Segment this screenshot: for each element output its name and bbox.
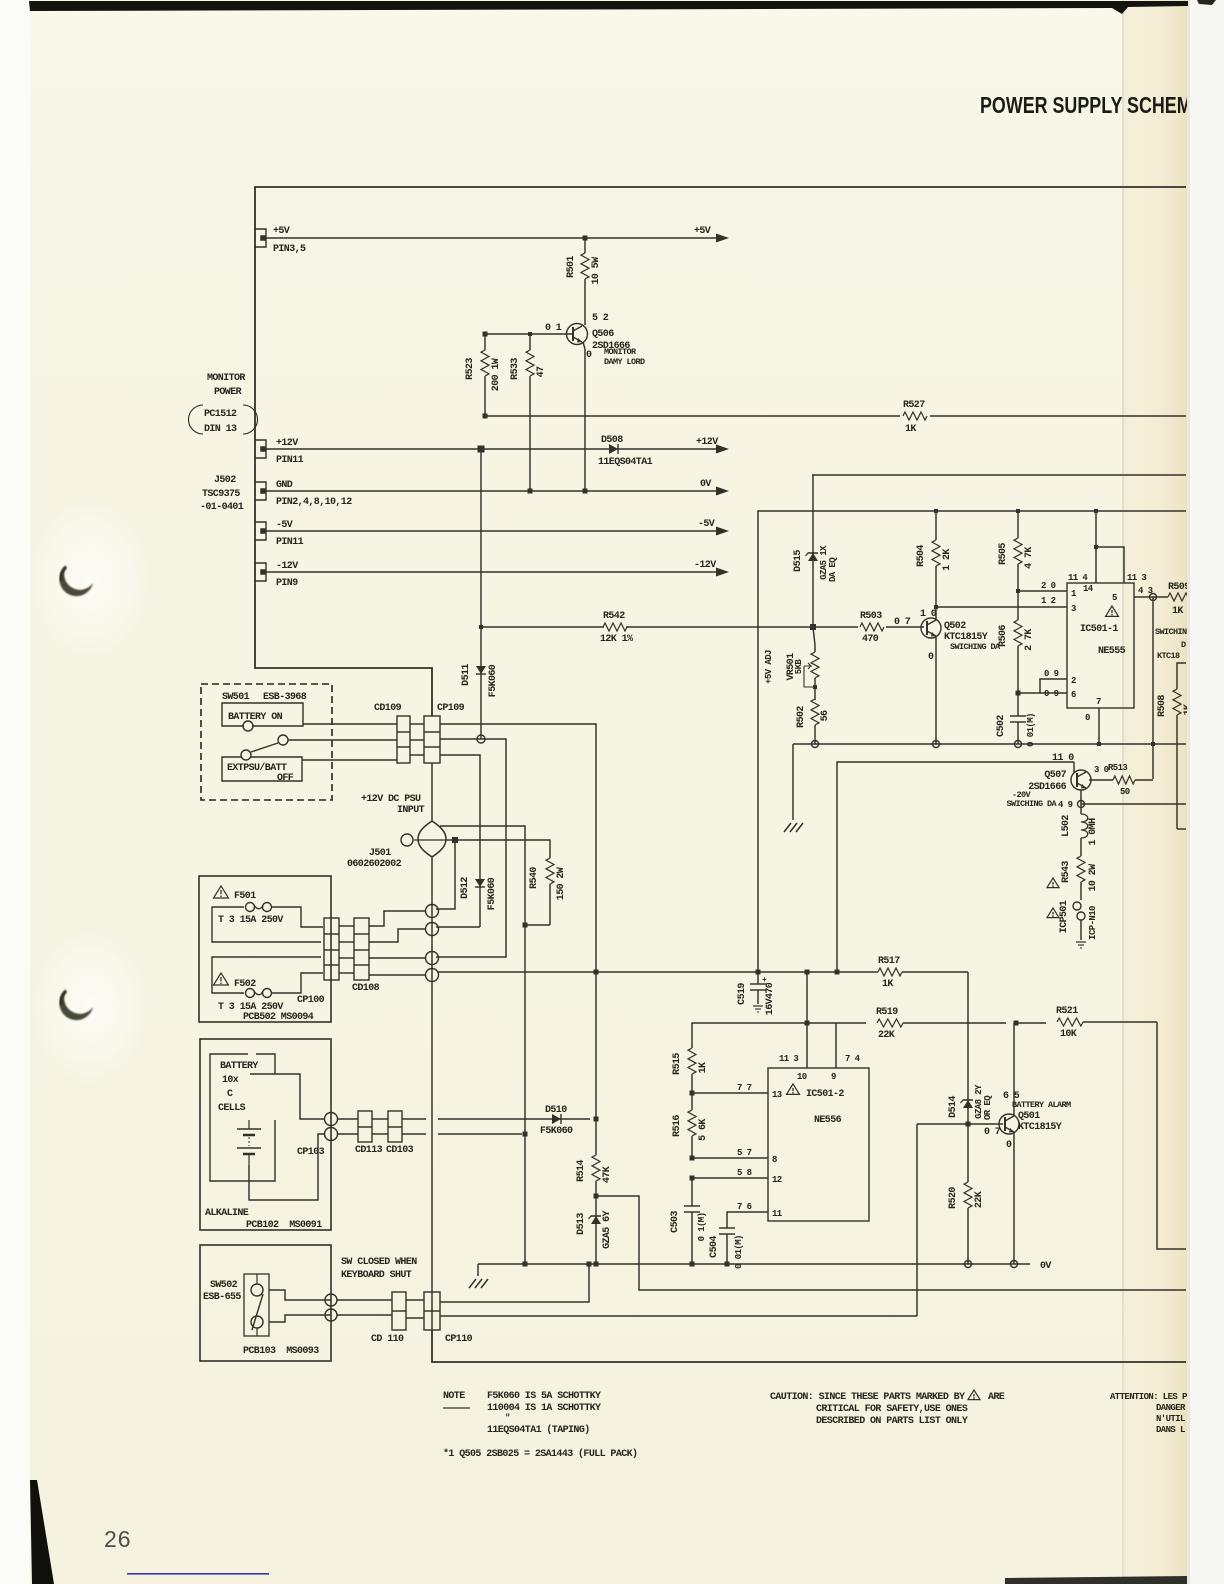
wire keyboard net down [524, 1134, 526, 1264]
connector pin circle 4 [426, 969, 439, 982]
resistor R523 200 1W [484, 334, 486, 350]
wire CD108 pin2 to J501 [369, 929, 426, 942]
capacitor C502 0.01(M) [1017, 693, 1019, 716]
svg-text:CAUTION: SINCE THESE PARTS MAR: CAUTION: SINCE THESE PARTS MARKED BY [770, 1392, 965, 1403]
svg-text:D514: D514 [948, 1096, 959, 1118]
resistor R508 1K [1173, 689, 1181, 715]
svg-text:R521: R521 [1056, 1006, 1078, 1017]
diode D514 GZA8 2Y OR EQ (zener) [967, 1094, 969, 1124]
svg-text:DA EQ: DA EQ [828, 557, 838, 582]
svg-text:INPUT: INPUT [397, 805, 425, 816]
wire J501 to R540 [447, 840, 550, 858]
svg-text:+5V: +5V [694, 226, 711, 237]
capacitor C503 0.1(M) [691, 1178, 693, 1206]
svg-text:7: 7 [1096, 697, 1101, 707]
wire Q507 emitter node [1080, 790, 1082, 804]
svg-text:CD108: CD108 [352, 983, 380, 994]
wire CD109-CP109 links [410, 723, 424, 725]
svg-text:R508: R508 [1157, 695, 1168, 717]
svg-text:0 1(M): 0 1(M) [697, 1213, 707, 1242]
svg-text:BATTERY: BATTERY [220, 1061, 258, 1072]
svg-text:R517: R517 [878, 956, 900, 967]
svg-text:CD109: CD109 [374, 703, 402, 714]
connector pin circle 1 [426, 905, 439, 918]
svg-text:PCB102 MS0091: PCB102 MS0091 [246, 1220, 322, 1231]
connector CP110 [424, 1292, 440, 1330]
svg-text:F502: F502 [234, 979, 256, 990]
wire main vertical J501 to CP110 [431, 856, 433, 1330]
svg-text:MONITOR: MONITOR [604, 347, 637, 357]
connector CD113 [358, 1111, 372, 1142]
wire R508 bottom exit [1177, 828, 1186, 830]
battery cell symbol [237, 1128, 261, 1130]
svg-text:14: 14 [1083, 584, 1094, 594]
connector CD110 [392, 1292, 406, 1330]
svg-text:11 3: 11 3 [1127, 573, 1146, 583]
svg-text:1 0MH: 1 0MH [1088, 818, 1099, 846]
node sense/batt junction [594, 970, 599, 975]
svg-text:D508: D508 [601, 435, 623, 446]
resistor R521 10K [1016, 1022, 1046, 1024]
wire Q506 emitter [583, 342, 585, 349]
switch SW502 contact frame [244, 1274, 269, 1336]
svg-text:PIN3,5: PIN3,5 [273, 244, 306, 255]
switch contact circle top [251, 1284, 263, 1296]
capacitor C504 0.01(M) [719, 1227, 735, 1229]
wire R527 rail [485, 415, 900, 417]
node gnd/Q501 junction [1011, 1261, 1018, 1268]
wire -5V rail [265, 530, 718, 532]
wire ground rail [478, 1263, 1030, 1265]
svg-text:ESB-3968: ESB-3968 [263, 692, 307, 703]
svg-text:0 7: 0 7 [984, 1127, 1001, 1138]
wire base line to Q501 [917, 1123, 1003, 1125]
svg-text:DANS L: DANS L [1156, 1425, 1185, 1435]
node R519/R521 junction [1014, 1021, 1019, 1026]
wire R508 top exit [1177, 663, 1186, 689]
arrow 0V out [716, 487, 729, 496]
svg-text:7 7: 7 7 [737, 1083, 752, 1093]
wire Q507 base to R513 [1089, 779, 1113, 781]
svg-text:22K: 22K [974, 1191, 985, 1208]
transistor Q502 KTC1815Y swiching da [921, 618, 941, 638]
node R502/rail junction [812, 741, 819, 748]
svg-text:ALKALINE: ALKALINE [205, 1208, 249, 1219]
svg-text:11 4: 11 4 [1068, 573, 1088, 583]
wire +12V to R542 [480, 449, 482, 627]
svg-text:50: 50 [1120, 787, 1130, 797]
switch contact circle bottom [251, 1316, 263, 1328]
wire rail to ground [792, 744, 794, 820]
wire CP110 pin2 keyboard sense [440, 1315, 917, 1317]
svg-text:ICP501: ICP501 [1059, 900, 1070, 933]
svg-text:R516: R516 [672, 1115, 683, 1137]
transistor Q501 KTC1815Y battery alarm [999, 1114, 1019, 1134]
wire pin2 bracket [1040, 679, 1067, 693]
node D514/base junction [966, 1122, 971, 1127]
node rail/R505 junction [1016, 509, 1020, 513]
wire feedback line to D515 [812, 474, 1186, 476]
svg-text:CP109: CP109 [437, 703, 465, 714]
svg-text:NE555: NE555 [1098, 646, 1126, 657]
diode D511 F5K060 [480, 627, 482, 739]
node +5V/R501 junction [583, 236, 588, 241]
resistor R516 5 6K [691, 1093, 693, 1110]
svg-text:R514: R514 [576, 1160, 587, 1182]
svg-text:CD103: CD103 [386, 1145, 414, 1156]
svg-text:5 8: 5 8 [737, 1168, 752, 1178]
resistor R527 1K [903, 412, 927, 420]
diode D515 GZA5 1X DA EQ (zener) [812, 475, 814, 627]
svg-text:0: 0 [928, 652, 934, 663]
svg-text:SWICHING DA: SWICHING DA [1006, 799, 1057, 809]
svg-text:Q506: Q506 [592, 329, 614, 340]
pin +12V PIN11 [255, 440, 266, 458]
schematic bottom border [432, 1330, 1186, 1362]
svg-text:R527: R527 [903, 400, 925, 411]
svg-text:DAMY LORD: DAMY LORD [604, 357, 645, 367]
svg-text:CP110: CP110 [445, 1334, 473, 1345]
wire emitter net out right [1081, 803, 1186, 805]
svg-text:12K 1%: 12K 1% [600, 634, 633, 645]
svg-text:C503: C503 [670, 1211, 681, 1233]
svg-text:R520: R520 [948, 1187, 959, 1209]
svg-text:CD 110: CD 110 [371, 1334, 404, 1345]
node gnd/keyboard junction [523, 1262, 528, 1267]
resistor R533 47 [529, 334, 531, 350]
svg-text:0 1: 0 1 [545, 323, 562, 334]
svg-text:CRITICAL FOR SAFETY,USE ONES: CRITICAL FOR SAFETY,USE ONES [816, 1404, 968, 1415]
wire pin14 supply drop [1095, 511, 1097, 583]
svg-text:F501: F501 [234, 891, 256, 902]
svg-text:OR EQ: OR EQ [983, 1095, 993, 1120]
svg-text:0: 0 [1006, 1140, 1012, 1151]
svg-text:SWICHING DA: SWICHING DA [950, 642, 1001, 652]
transistor Q507 2SD1666 -20V swiching da [1071, 770, 1091, 790]
node batt-/keyboard junction [523, 1132, 528, 1137]
switch box SW501 ESB-3968 (dashed) [201, 684, 332, 800]
svg-text:PIN9: PIN9 [276, 578, 298, 589]
node J501 output junction [452, 837, 458, 843]
svg-text:3 0: 3 0 [1094, 765, 1109, 775]
svg-text:-12V: -12V [694, 560, 716, 571]
top black bar [29, 1, 1188, 14]
svg-text:R504: R504 [916, 545, 927, 567]
svg-text:150 2W: 150 2W [556, 867, 567, 900]
connector circle battery + [325, 1113, 338, 1126]
svg-text:KTC18: KTC18 [1157, 651, 1180, 661]
svg-text:11EQS04TA1: 11EQS04TA1 [598, 457, 653, 468]
resistor R540 150 2W [546, 858, 554, 884]
svg-text:SWICHING: SWICHING [1155, 627, 1192, 637]
pin +5V PIN3,5 [255, 229, 266, 247]
svg-text:3: 3 [1071, 604, 1076, 614]
wire pin4 loop [1096, 547, 1124, 583]
svg-text:2: 2 [1071, 676, 1076, 686]
wire collector node to IC pin3 [936, 606, 1067, 608]
capacitor C519 16V470 [757, 972, 759, 984]
wire CD110-CP110 links [406, 1299, 424, 1301]
svg-text:1K: 1K [882, 979, 893, 990]
svg-text:F5K060: F5K060 [540, 1126, 573, 1137]
svg-text:7 6: 7 6 [737, 1202, 752, 1212]
svg-text:F5K060: F5K060 [488, 664, 499, 697]
resistor R504 1 2K [935, 511, 937, 540]
svg-text:2SD1666: 2SD1666 [1028, 782, 1066, 793]
svg-text:1K: 1K [1172, 606, 1183, 617]
node R523/rail junction [483, 414, 488, 419]
wire R517 to D514 [967, 972, 969, 1094]
wire CD108 pin1 to J501 [369, 911, 426, 926]
svg-text:PC1512: PC1512 [204, 409, 237, 420]
wire emitter/ground rail y744 [793, 743, 1186, 745]
svg-text:T 3 15A 250V: T 3 15A 250V [218, 915, 283, 926]
wire +5V rail [265, 237, 718, 239]
diode D508 11EQS04TA1 [600, 448, 718, 450]
node sense/C519 junction [756, 970, 761, 975]
wire battery + to CP103 [250, 1074, 325, 1119]
node rail/pin14 junction [1094, 509, 1098, 513]
svg-text:10x: 10x [222, 1075, 239, 1086]
svg-text:R543: R543 [1061, 861, 1072, 883]
resistor R502 56 [814, 687, 816, 700]
connector CP100 [324, 918, 339, 980]
svg-text:GND: GND [276, 480, 293, 491]
wire -20V box corner [837, 762, 1074, 974]
switch box SW502 PCB103 MS0093 [200, 1245, 331, 1361]
switch position box EXTPSU/BATT OFF [222, 757, 302, 781]
bottom-right dark bar [1005, 1576, 1187, 1584]
svg-text:1K: 1K [905, 424, 916, 435]
wire common to CD109 [288, 739, 397, 741]
wire pin11 line [727, 1212, 768, 1228]
svg-text:0V: 0V [1040, 1261, 1051, 1272]
arrow +12V out [716, 445, 729, 454]
svg-text:0 7: 0 7 [894, 617, 911, 628]
svg-text:0: 0 [586, 350, 592, 361]
punch hole top [30, 500, 150, 660]
node gnd/D513 junction [594, 1262, 599, 1267]
svg-text:ARE: ARE [988, 1392, 1005, 1403]
svg-text:9: 9 [831, 1072, 836, 1082]
svg-text:10K: 10K [1060, 1029, 1077, 1040]
wire Q506 base [485, 333, 573, 335]
svg-text:BATTERY ON: BATTERY ON [228, 712, 283, 723]
svg-text:47: 47 [536, 366, 547, 377]
svg-text:SW CLOSED WHEN: SW CLOSED WHEN [341, 1257, 417, 1268]
battery cells box [210, 1054, 275, 1181]
wire -12V rail [265, 571, 718, 573]
resistor R509 1K [1168, 593, 1192, 601]
svg-text:470: 470 [862, 634, 879, 645]
node +12V/D511 junction [478, 446, 485, 453]
svg-text:R542: R542 [603, 611, 625, 622]
page title POWER SUPPLY SCHEMATIC (clipped at page edge) [980, 92, 1224, 118]
svg-text:R533: R533 [510, 358, 521, 380]
svg-text:4 9: 4 9 [1058, 800, 1073, 810]
svg-text:+5V: +5V [273, 226, 290, 237]
svg-text:J501: J501 [369, 848, 391, 859]
resistor R519 22K [836, 1022, 866, 1024]
node pin5 junction [1150, 594, 1157, 601]
arrow -12V out [716, 568, 729, 577]
potentiometer VR501 5KB (+5V ADJ) [813, 627, 815, 645]
node R516/pin8 junction [690, 1156, 695, 1161]
node R542 left junction [479, 625, 483, 629]
wire battery-on to CD109 [303, 723, 397, 725]
svg-text:5 6K: 5 6K [698, 1119, 709, 1141]
svg-text:5: 5 [1112, 593, 1117, 603]
resistor R506 2 7K [1017, 591, 1019, 620]
warning triangle F501 [214, 886, 229, 898]
svg-text:R509: R509 [1168, 582, 1190, 593]
diode D513 GZA5 6Y (zener) [595, 1196, 597, 1264]
svg-text:R501: R501 [566, 256, 577, 278]
connector circle sw top [325, 1294, 337, 1306]
wire Q501 collector [1013, 1023, 1015, 1116]
svg-text:0 9: 0 9 [1044, 669, 1059, 679]
svg-text:TSC9375: TSC9375 [202, 489, 240, 500]
schematic border frame [255, 187, 1186, 716]
svg-text:0: 0 [1085, 713, 1090, 723]
svg-text:BATTERY ALARM: BATTERY ALARM [1012, 1100, 1071, 1110]
svg-text:-5V: -5V [276, 520, 293, 531]
warning triangle ICP501 [1047, 908, 1059, 918]
node pin10 drop junction [805, 1021, 810, 1026]
node GND/Q506 emitter junction [583, 489, 588, 494]
svg-text:R540: R540 [529, 867, 540, 889]
blue scan line [127, 1573, 269, 1575]
warning triangle R543 [1047, 878, 1059, 888]
resistor R514 47K [592, 1155, 600, 1181]
svg-text:0V: 0V [700, 479, 711, 490]
node rail/R504 junction [934, 509, 938, 513]
node C502/rail junction [1015, 741, 1022, 748]
wire batt- to keyboard net [438, 1133, 522, 1135]
svg-text:+12V DC PSU: +12V DC PSU [361, 794, 421, 805]
svg-text:POWER: POWER [214, 387, 242, 398]
battery box PCB102 MS0091 [200, 1039, 331, 1230]
svg-text:6: 6 [1071, 690, 1076, 700]
svg-text:CP103: CP103 [297, 1147, 325, 1158]
connector CP109 [424, 716, 440, 763]
svg-text:11: 11 [772, 1209, 783, 1219]
connector CD108 [354, 918, 369, 980]
wire pin12 line [692, 1177, 768, 1179]
connector J501 0602602002 [418, 821, 446, 857]
svg-text:5KB: 5KB [794, 659, 804, 675]
svg-text:PCB502 MS0094: PCB502 MS0094 [243, 1012, 314, 1023]
svg-text:1K: 1K [698, 1062, 709, 1073]
node D510/R514 junction [594, 1117, 599, 1122]
svg-text:KTC1815Y: KTC1815Y [1018, 1122, 1062, 1133]
wire R515 feed line y1023 [692, 1023, 836, 1048]
svg-text:CELLS: CELLS [218, 1103, 246, 1114]
arrow -5V out [716, 527, 729, 536]
svg-text:1 2: 1 2 [1041, 596, 1056, 606]
svg-text:F5K060: F5K060 [487, 877, 498, 910]
wire CP110 pin1 to gnd rail [440, 1264, 589, 1302]
svg-text:10: 10 [797, 1072, 807, 1082]
svg-text:56: 56 [820, 710, 831, 721]
wire main vertical from CP109 to J501 [431, 763, 433, 822]
svg-text:R523: R523 [465, 358, 476, 380]
svg-text:ESB-655: ESB-655 [203, 1292, 241, 1303]
svg-text:IC501-1: IC501-1 [1080, 624, 1118, 635]
wire pin13 line [692, 1092, 768, 1094]
svg-text:DESCRIBED ON PARTS LIST ONLY: DESCRIBED ON PARTS LIST ONLY [816, 1416, 968, 1427]
connector circle sw bottom [325, 1309, 337, 1321]
diode D510 F5K060 [438, 1118, 590, 1120]
node gnd/C503 junction [690, 1262, 695, 1267]
node R540/keyboard junction [523, 923, 528, 928]
svg-text:L502: L502 [1061, 815, 1072, 837]
svg-text:12: 12 [772, 1175, 782, 1185]
ground keyboard rail [477, 1264, 479, 1276]
diode D512 F5K060 [479, 845, 481, 927]
resistor R503 470 [813, 626, 858, 628]
svg-text:OFF: OFF [277, 773, 294, 784]
node gnd/CP110 junction [587, 1262, 592, 1267]
warning triangle F502 [214, 973, 229, 985]
svg-text:-01-0401: -01-0401 [200, 502, 244, 513]
node R533 top junction [528, 332, 532, 336]
svg-text:D515: D515 [793, 550, 804, 572]
svg-text:NE556: NE556 [814, 1115, 842, 1126]
svg-text:C502: C502 [996, 715, 1007, 737]
node gnd/R520 junction [965, 1261, 972, 1268]
svg-text:PCB103 MS0093: PCB103 MS0093 [243, 1346, 319, 1357]
node R514/D513 junction [594, 1194, 599, 1199]
transistor Q506 2SD1666 monitor damy load [567, 324, 588, 345]
inductor L502 1.0MH [1080, 804, 1082, 814]
svg-text:11EQS04TA1 (TAPING): 11EQS04TA1 (TAPING) [487, 1424, 590, 1436]
wire R514 tap to NE556 line [596, 1196, 1186, 1290]
svg-text:1 0: 1 0 [920, 609, 937, 620]
svg-text:-12V: -12V [276, 561, 298, 572]
svg-text:R506: R506 [998, 625, 1009, 647]
wire pin7 to rail [1098, 708, 1100, 744]
connector pin circle 3 [426, 952, 439, 965]
svg-text:8: 8 [772, 1155, 777, 1165]
svg-text:2 0: 2 0 [1041, 581, 1056, 591]
wire pin6 bracket [1018, 692, 1067, 694]
wire D512 to battery circle [436, 926, 480, 928]
svg-text:SW501: SW501 [222, 692, 250, 703]
wire pin9 drop [835, 1023, 837, 1068]
node D511/CP109 junction [477, 735, 485, 743]
svg-text:10 2W: 10 2W [1088, 864, 1099, 892]
svg-text:SW502: SW502 [210, 1280, 238, 1291]
fuse ICP501 ICP-N10 [1073, 902, 1081, 910]
wire pin5 out [1134, 596, 1168, 598]
svg-text:CP100: CP100 [297, 995, 325, 1006]
wire top +supply rail y511 [758, 511, 1186, 972]
svg-text:R505: R505 [998, 543, 1009, 565]
wire batt+ links [337, 1118, 358, 1120]
svg-text:D512: D512 [460, 877, 471, 899]
svg-text:IC501-2: IC501-2 [806, 1089, 844, 1100]
wire R521 net to edge [1157, 1022, 1186, 1249]
node pin5 net / rail crossing junction [1151, 742, 1155, 746]
svg-text:R513: R513 [1108, 763, 1127, 773]
node Q502 emitter/rail junction [933, 741, 940, 748]
connector CD103 [388, 1111, 402, 1142]
svg-text:Q507: Q507 [1044, 770, 1066, 781]
switch lever [251, 743, 278, 752]
resistor R505 4 7K [1017, 511, 1019, 538]
node D515/R542/R503/VR501 junction [810, 624, 816, 630]
